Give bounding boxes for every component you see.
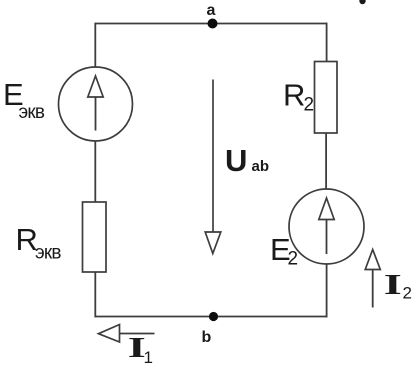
- resistor R2: [315, 62, 338, 134]
- svg-text:a: a: [207, 2, 216, 19]
- wire right middle (R2 to E2): [325, 133, 327, 190]
- voltage source E2: [289, 189, 364, 264]
- label R2: [283, 78, 314, 116]
- voltage source E_экв: [59, 67, 133, 141]
- label U_ab: [225, 143, 269, 178]
- svg-text:ab: ab: [252, 158, 270, 175]
- svg-text:R: R: [283, 78, 305, 113]
- label R_экв: [16, 222, 62, 264]
- svg-text:U: U: [225, 143, 247, 178]
- svg-text:1: 1: [144, 348, 153, 367]
- svg-text:экв: экв: [35, 243, 61, 264]
- node b: [202, 312, 219, 346]
- wire top (node a rail): [95, 23, 327, 25]
- svg-text:экв: экв: [19, 102, 45, 123]
- current arrow I1: [99, 325, 155, 343]
- wire right lower (E2 to bottom rail): [326, 264, 328, 317]
- label E2: [270, 232, 298, 270]
- label E_экв: [3, 77, 45, 123]
- wire right upper (top rail to R2): [326, 23, 328, 62]
- wire left upper (top rail to E_экв): [94, 23, 96, 68]
- svg-text:2: 2: [403, 284, 412, 303]
- svg-text:2: 2: [288, 249, 299, 270]
- svg-text:b: b: [202, 329, 212, 346]
- wire left lower (R_экв to bottom rail): [94, 272, 96, 317]
- svg-text:I: I: [384, 269, 402, 300]
- arrow U_ab: [205, 80, 221, 254]
- wire left middle (E_экв to R_экв): [94, 141, 96, 202]
- node a: [207, 2, 218, 29]
- label I1: [128, 332, 153, 367]
- svg-text:2: 2: [304, 95, 315, 116]
- stray mark top edge: [359, 0, 365, 4]
- label I2: [384, 269, 412, 302]
- resistor R_экв: [83, 202, 107, 272]
- current arrow I2: [365, 250, 380, 308]
- wire bottom (node b rail): [95, 316, 328, 318]
